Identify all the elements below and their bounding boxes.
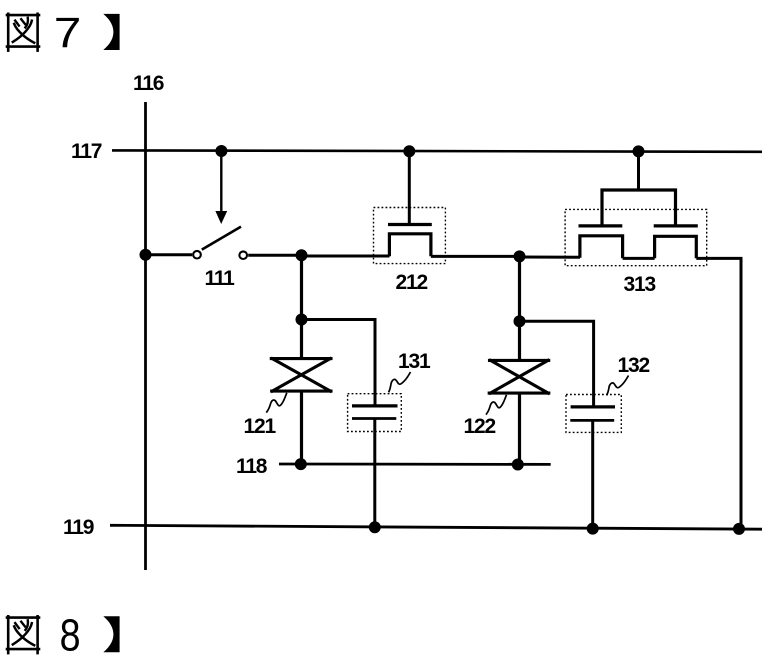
wire: link between 313 channels <box>623 257 655 260</box>
node B: junction feeding 121 and 131 <box>296 314 308 326</box>
svg-text:117: 117 <box>71 140 102 163</box>
leader squiggle for 122 <box>486 395 507 415</box>
transistor 313 right channel <box>655 236 697 258</box>
figure title [Zu 8] kanji ZU glyph <box>7 616 39 653</box>
dotted box around transistor 313 <box>565 209 707 265</box>
wire: 116 to switch left contact <box>146 253 193 256</box>
wire: node C to transistor 313 source <box>520 256 581 259</box>
dotted box around capacitor 131 <box>348 394 402 432</box>
node: junction 122 on line 118 <box>512 459 524 471</box>
figure title right black lenticular bracket <box>103 616 119 652</box>
dotted box around transistor 212 <box>374 208 446 264</box>
svg-text:131: 131 <box>398 350 431 373</box>
wire: horizontal source line 119 <box>110 525 762 529</box>
figure title right black lenticular bracket <box>103 14 119 50</box>
node: junction right column on line 119 <box>733 523 745 535</box>
capacitor 132 top plate <box>571 405 615 408</box>
svg-text:116: 116 <box>133 72 164 95</box>
transistor 212 gate bar <box>388 223 432 226</box>
node A: junction at top of branch 121 <box>296 249 308 261</box>
wire: horizontal word line 117 <box>112 150 762 151</box>
capacitor 131 bottom plate <box>352 417 396 420</box>
variable resistance element 122 (hourglass symbol) <box>489 360 549 393</box>
wire: capacitor 132 down to line 119 <box>591 420 594 528</box>
leader squiggle for 131 <box>389 372 411 392</box>
leader squiggle for 121 <box>266 393 287 413</box>
transistor 313 right gate bar <box>654 224 698 227</box>
transistor 212 gate wire <box>408 151 411 223</box>
arrow: actuation arrow above switch 111 <box>215 151 227 224</box>
wire: 212 drain to node C <box>431 255 520 258</box>
svg-text:122: 122 <box>464 415 496 438</box>
node: junction 121 on line 118 <box>295 458 307 470</box>
wire: horizontal line 118 <box>279 463 551 466</box>
figure title [Zu 7] kanji ZU glyph <box>7 14 39 51</box>
figure title digit 7 <box>54 8 82 56</box>
wire: node D to capacitor 132 top <box>520 321 594 407</box>
wire: node A down to node B <box>300 255 303 319</box>
switch 111 right contact <box>239 251 247 259</box>
wire: capacitor 131 down to line 119 <box>373 419 376 528</box>
svg-text:313: 313 <box>624 273 656 296</box>
transistor 313 left channel <box>580 236 623 258</box>
wire: node D down to element 122 <box>518 321 521 360</box>
variable resistance element 121 (hourglass symbol) <box>271 359 331 392</box>
svg-text:111: 111 <box>205 267 236 290</box>
switch 111 left contact <box>193 251 201 259</box>
node: junction 132 on line 119 <box>587 523 599 535</box>
transistor 313 gate wire <box>637 151 640 190</box>
switch 111 blade <box>202 227 241 250</box>
node: junction of 117 and switch column <box>215 145 227 157</box>
wire: switch right contact to node A <box>248 254 301 257</box>
wire: element 122 down to line 118 <box>518 393 521 465</box>
wire: vertical bit line 116 <box>144 102 147 570</box>
leader squiggle for 132 <box>607 376 629 396</box>
figure title digit 8 <box>60 609 81 660</box>
svg-text:212: 212 <box>396 271 428 294</box>
wire: element 121 down to line 118 <box>300 391 303 464</box>
wire: node A to transistor 212 source <box>302 255 390 258</box>
wire: node B down to element 121 <box>300 320 303 359</box>
wire: node B to capacitor 131 top <box>302 320 376 407</box>
transistor 313 left gate bar <box>579 224 623 227</box>
node: junction of 116 and switch wire <box>140 249 152 261</box>
svg-text:7: 7 <box>54 8 82 56</box>
dotted box around capacitor 132 <box>566 395 621 433</box>
wire: 313 drain to right column <box>696 258 741 529</box>
svg-text:8: 8 <box>60 609 81 660</box>
capacitor 131 top plate <box>352 404 398 407</box>
node: junction 131 on line 119 <box>369 521 381 533</box>
node C: junction at top of branch 122 <box>514 250 526 262</box>
transistor 212 channel <box>389 234 431 256</box>
svg-text:132: 132 <box>618 354 650 377</box>
svg-text:119: 119 <box>63 516 94 539</box>
svg-text:118: 118 <box>236 455 268 478</box>
svg-text:121: 121 <box>244 415 277 438</box>
node D: junction feeding 122 and 132 <box>514 315 526 327</box>
capacitor 132 bottom plate <box>570 419 614 422</box>
node: junction of 212 gate on 117 <box>403 145 415 157</box>
transistor 313 gate bridge <box>602 190 676 225</box>
wire: node C down to node D <box>518 256 521 321</box>
node: junction of 313 gate on 117 <box>633 145 645 157</box>
